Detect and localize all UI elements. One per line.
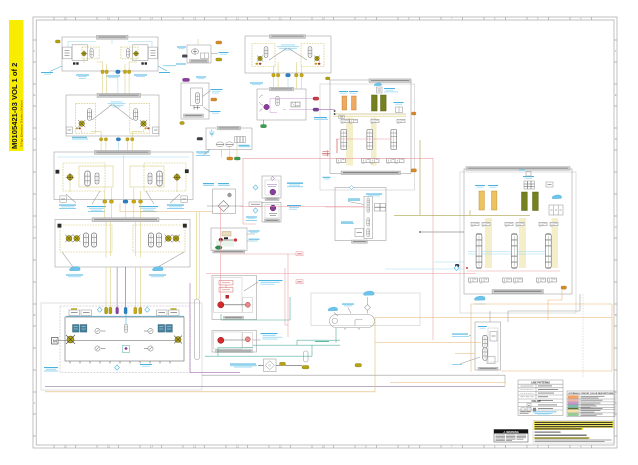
- tag: red test port 1: [296, 252, 303, 256]
- tag pill top-left: [55, 40, 60, 43]
- wire: pilot pressure rail: [336, 138, 391, 140]
- wire: red riser right: [432, 158, 434, 340]
- block: reservoir: [330, 315, 375, 330]
- tag: tank dark port: [197, 137, 203, 140]
- case drain check capsule: [194, 299, 199, 360]
- block: drain filter: [258, 359, 302, 372]
- block: gear pump 1: [212, 276, 257, 320]
- accumulator B2: [492, 191, 497, 210]
- pump pair P4a: [65, 235, 80, 243]
- wire: filter line: [207, 205, 243, 207]
- port pills under group 3: [103, 200, 143, 203]
- wire: cooler drain: [263, 120, 265, 125]
- notes: highlighted circuit note: [533, 421, 615, 444]
- filter F2 olive: [381, 95, 387, 111]
- junction box: [249, 202, 262, 207]
- tag: left valve orange bottom: [411, 169, 417, 172]
- wire: block4 interior piping: [106, 220, 140, 258]
- side ports group 2: [66, 127, 159, 134]
- manifold labels: [341, 194, 382, 224]
- svg-text:E: E: [615, 93, 617, 97]
- enclosure: reservoir bay: [311, 293, 420, 326]
- footer: right valve part number: [492, 290, 544, 294]
- wire: purple return long: [319, 109, 335, 111]
- relief pairs bottom right: [469, 278, 557, 283]
- solenoid pair right: [394, 102, 404, 113]
- inlet arrows red: [323, 150, 329, 156]
- svg-text:E: E: [34, 93, 36, 97]
- pump P5 right: [174, 336, 182, 344]
- wire: orange cooler box: [375, 289, 612, 392]
- spool section 2: [367, 130, 373, 150]
- tag: tank return orange: [227, 157, 233, 160]
- pump P2a: [76, 120, 86, 129]
- wire: orange return bus: [45, 383, 505, 392]
- tag: cooler out purple: [313, 108, 319, 111]
- group 3 callout labels: [59, 191, 184, 212]
- accumulator A1 orange: [342, 96, 347, 110]
- group 2 center note: [108, 102, 126, 108]
- tag: pilot filter port: [211, 98, 217, 101]
- fan motor labels: [247, 231, 260, 242]
- drain filter label: [230, 364, 257, 368]
- wire: fan group interior piping: [274, 62, 302, 74]
- tag: tank return green: [234, 157, 240, 160]
- relief pairs bottom row: [337, 159, 405, 164]
- block: tandem main pump unit: [65, 316, 184, 363]
- block: pilot filter unit: [181, 83, 209, 119]
- wire: cyan pilot link: [385, 262, 464, 269]
- group 2 label: [72, 137, 88, 139]
- spool R1: [476, 234, 482, 268]
- filter labels: [203, 183, 230, 185]
- drive shaft: [58, 340, 178, 342]
- svg-text:C: C: [615, 225, 617, 229]
- block: right control valve assembly: [464, 167, 572, 294]
- wire: pilot red riser: [336, 139, 338, 153]
- block: solenoid valve upper: [262, 176, 281, 201]
- tag: right valve inlet dark: [455, 264, 459, 267]
- accumulator B1: [479, 191, 484, 210]
- svg-text:B: B: [615, 313, 617, 317]
- svg-text:A: A: [34, 401, 36, 405]
- motor M2 right half: [121, 45, 157, 65]
- side tags group 4: [58, 224, 187, 228]
- pump pair P4b: [165, 235, 180, 243]
- tag: pilot filter case: [180, 122, 185, 125]
- accumulator A2 orange: [352, 96, 357, 110]
- wire: teal drain network: [205, 297, 340, 356]
- pilot valve top: [374, 83, 398, 93]
- enclosure: engine compartment: [41, 303, 202, 390]
- footer: left valve part number: [341, 171, 401, 175]
- accumulator labels right: [475, 185, 498, 188]
- block: fan pump: [187, 45, 211, 63]
- pilot caps row: [341, 119, 405, 124]
- block: arm cylinder group 4: [55, 218, 190, 267]
- left valve label: [323, 177, 331, 180]
- block: front fan / travel motor group 1: [62, 35, 158, 71]
- wire: group1 to group2 drops: [103, 74, 130, 95]
- wire: fan motor red drop: [220, 207, 222, 302]
- tag: cooler in red: [313, 97, 319, 100]
- block: oil cooler: [257, 87, 313, 120]
- table: line patterns legend: [518, 380, 563, 416]
- wire: cyan gallery right: [468, 252, 545, 255]
- tag: left valve olive top: [326, 77, 331, 80]
- wire: right assembly gray links: [490, 294, 580, 322]
- cloud: reservoir left: [328, 307, 338, 316]
- block: fan motor: [211, 228, 247, 253]
- tag: cooler drain green: [261, 125, 267, 128]
- wire: manifold outlet: [419, 231, 464, 233]
- valve V2b: [134, 109, 138, 121]
- fan valve right: [308, 47, 312, 58]
- node: check diamond upper: [253, 185, 258, 190]
- solenoid box right: [549, 205, 563, 215]
- svg-text:M: M: [53, 339, 57, 344]
- wire: main pressure red right: [206, 273, 476, 275]
- wire: red inlet left valve: [322, 152, 330, 154]
- block: cooling fan motor group 2: [66, 93, 159, 136]
- wire: suction red long: [243, 157, 434, 159]
- gear pump 1 labels: [244, 280, 283, 291]
- tag: olive mid pill: [355, 364, 362, 367]
- svg-text:M0105421-03 VOL 1 of 2: M0105421-03 VOL 1 of 2: [10, 63, 19, 149]
- regulator right: [158, 325, 172, 333]
- wire: block2 interior piping: [82, 130, 144, 138]
- valve V2a: [87, 109, 91, 121]
- cloud: reservoir ref right: [552, 195, 562, 199]
- tag: right valve orange: [561, 286, 567, 289]
- cylinder valve C3a: [85, 171, 99, 186]
- center bypass valve: [123, 346, 130, 353]
- fan motor left: [256, 55, 264, 64]
- teal labels: [315, 340, 329, 343]
- node: drain diamond: [115, 365, 120, 370]
- pump P2b: [140, 120, 150, 129]
- block: left control valve assembly: [330, 79, 411, 174]
- node: check diamond right: [454, 265, 459, 270]
- block: hydraulic fan drive group: [245, 35, 331, 73]
- pilot manifold row left: [69, 308, 92, 315]
- port pills row above pump unit: [105, 307, 142, 314]
- accumulator labels: [339, 91, 358, 94]
- wire: olive gallery link: [394, 140, 530, 215]
- wire: group4 to pump unit drops: [106, 267, 140, 307]
- block: hydraulic tank: [206, 126, 252, 149]
- electric motor M: [52, 338, 59, 345]
- tag: fan pump case: [216, 58, 222, 61]
- wire: crossover X: [92, 105, 133, 121]
- valves V4b: [148, 233, 161, 247]
- block: boom cylinder group 3: [54, 150, 193, 199]
- wire: pilot feed center: [125, 314, 127, 324]
- yellow title sidebar: [9, 20, 24, 151]
- wire: block3 interior piping: [70, 182, 177, 200]
- port box PP: [339, 115, 344, 118]
- solenoid labels: [246, 183, 303, 221]
- tag: pilot supply purple: [183, 78, 190, 81]
- warning box: [494, 430, 528, 443]
- group 4 tank clouds: [62, 252, 184, 277]
- gear pump 2 labels: [253, 333, 283, 340]
- fan pump labels: [163, 47, 229, 66]
- svg-text:C: C: [34, 225, 36, 229]
- junction: red dot: [466, 267, 468, 269]
- tag: drain filter olive: [280, 362, 286, 365]
- fan motor right: [314, 55, 320, 64]
- wire: orange return from group 3: [120, 203, 213, 211]
- wire: tank red drop: [243, 158, 256, 224]
- cooler labels: [250, 83, 328, 120]
- wire: gray return bus: [202, 375, 505, 383]
- tag: fan pump pressure: [216, 41, 222, 44]
- tag: left valve orange right: [412, 112, 417, 115]
- table: hydraulic circuit color descriptions: [567, 391, 615, 417]
- center gauge valve: [124, 324, 127, 333]
- wire: fan group drops to cooler: [274, 77, 302, 89]
- port pills under group 1: [101, 70, 131, 74]
- pump unit labels: [44, 364, 152, 371]
- pump P5 left: [66, 335, 75, 344]
- block: pilot accumulator unit: [475, 322, 501, 370]
- svg-text:36 Page; (Dimensions: 36 inche: 36 Page; (Dimensions: 36 inches x 24 inc…: [21, 100, 23, 147]
- fan valve left: [264, 47, 268, 58]
- wire: orange feeds to accumulator unit: [375, 343, 481, 354]
- cylinder valve C3b: [148, 171, 162, 186]
- pale pilot bands: [346, 118, 353, 166]
- svg-text:D: D: [615, 137, 617, 141]
- svg-text:COLOR: COLOR: [531, 400, 540, 403]
- filter G2 olive: [533, 192, 539, 211]
- cloud: reservoir right: [363, 291, 374, 295]
- wire: fan crossover: [269, 48, 307, 60]
- wire: purple drain: [190, 283, 240, 373]
- enclosure: left control valve: [320, 84, 415, 190]
- wire: block1 interior piping: [84, 58, 136, 70]
- block: return filter: [213, 189, 236, 214]
- spool R2: [511, 234, 517, 268]
- side tags group 3: [56, 169, 189, 202]
- regulator left: [73, 325, 87, 333]
- filter G1 olive: [522, 192, 528, 211]
- tag: dark inlet: [182, 55, 188, 58]
- valves V4a: [83, 233, 96, 247]
- wire: pilot rail right: [467, 270, 560, 272]
- group 1 callout labels: [41, 66, 170, 79]
- node: breather diamond: [365, 297, 371, 314]
- node: pilot check diamonds: [97, 307, 149, 312]
- spool R3: [545, 234, 551, 268]
- spool section 1: [341, 130, 347, 150]
- wire: cooler red feed: [241, 206, 365, 208]
- wire: fan pump suction: [197, 39, 199, 45]
- cloud: right valve drain: [474, 296, 485, 304]
- fan group center note: [277, 45, 299, 51]
- wire: gear pump red loop: [221, 254, 296, 337]
- pilot filter labels: [196, 77, 223, 114]
- wire: swing pilot pink: [326, 206, 367, 208]
- wire: tank suction drops: [221, 150, 223, 158]
- node: check diamond lower: [253, 208, 258, 213]
- wire: purple drain bus: [45, 385, 505, 387]
- pilot caps row right: [471, 222, 558, 227]
- spool section 3: [391, 130, 397, 150]
- motor M3a: [66, 173, 74, 181]
- motor M1 left half: [63, 45, 100, 65]
- wire: group2 to group3 drops: [101, 141, 132, 152]
- pilot accumulator labels: [452, 326, 487, 365]
- port pills under group 2: [100, 138, 134, 141]
- filter F1 olive: [372, 95, 378, 111]
- wire: group3 to group4 drops: [105, 203, 141, 219]
- enclosure: right control valve: [460, 172, 576, 313]
- port pills under fan group: [272, 74, 304, 77]
- junction dots: [334, 110, 336, 115]
- tank labels below: [196, 150, 210, 156]
- wire: yellow pilot pair: [196, 212, 199, 299]
- node: manifold top diamond: [350, 185, 354, 189]
- block: gear pump 2: [212, 331, 257, 353]
- motor M3b: [173, 173, 181, 181]
- wire: gray dashed drop: [582, 294, 584, 378]
- pale pilot bands right: [485, 218, 492, 268]
- top pilot valve: [519, 170, 531, 177]
- pilot manifold row right: [157, 308, 180, 315]
- small valve pair mid right: [546, 182, 553, 187]
- block: solenoid valve lower: [262, 203, 281, 223]
- block: swing brake manifold: [335, 188, 386, 244]
- enclosure: pump unit dashed: [60, 306, 190, 373]
- svg-text:B: B: [34, 313, 36, 317]
- tag: red test port 2: [296, 280, 303, 284]
- manifold grid box: [523, 176, 535, 189]
- svg-text:⚠ WARNING: ⚠ WARNING: [503, 430, 519, 434]
- reservoir label: [342, 304, 354, 314]
- svg-text:D: D: [34, 137, 36, 141]
- wire: olive gallery: [334, 113, 407, 115]
- relief valves: [95, 328, 153, 351]
- case drain capsule small: [302, 351, 309, 369]
